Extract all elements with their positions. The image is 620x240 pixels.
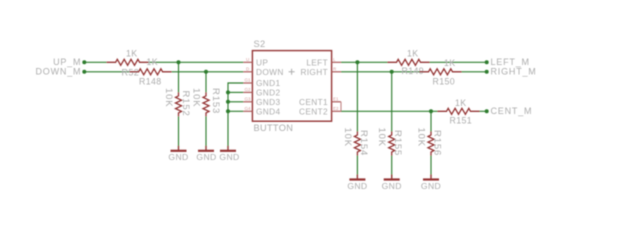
- resistor R156: [428, 132, 434, 156]
- svg-text:10K: 10K: [190, 88, 201, 107]
- svg-text:LEFT: LEFT: [306, 57, 328, 67]
- svg-text:1K: 1K: [147, 57, 158, 67]
- ground under R154: [349, 175, 365, 180]
- svg-text:1K: 1K: [126, 49, 137, 59]
- svg-text:U: U: [246, 57, 249, 62]
- svg-text:E2: E2: [333, 106, 339, 111]
- resistor R154: [354, 132, 360, 156]
- svg-text:R153: R153: [210, 88, 221, 114]
- svg-text:GND: GND: [168, 152, 188, 162]
- svg-text:E1: E1: [333, 97, 339, 102]
- wire R149 to LEFT_M: [430, 61, 487, 63]
- wire CENT1 stub down to CENT row: [340, 102, 342, 112]
- wire R153 to GND: [205, 116, 207, 149]
- svg-text:R155: R155: [392, 130, 403, 156]
- resistor R152: [176, 92, 182, 116]
- svg-text:10K: 10K: [376, 128, 387, 147]
- svg-text:BUTTON: BUTTON: [254, 123, 294, 133]
- svg-text:R151: R151: [450, 116, 472, 126]
- svg-text:G2: G2: [245, 87, 252, 92]
- svg-text:GND: GND: [196, 152, 216, 162]
- junction dots on ground bus: [226, 90, 230, 94]
- svg-text:DOWN_M: DOWN_M: [36, 67, 82, 77]
- junction dot UP row / R152: [177, 60, 181, 64]
- resistor R150: [420, 69, 462, 75]
- svg-text:GND4: GND4: [256, 106, 280, 116]
- junction dot CENT row / R156: [429, 109, 433, 113]
- wire R154 to GND: [356, 156, 358, 179]
- wire R155 to GND: [391, 156, 393, 179]
- wire LEFT pin to R149: [341, 61, 388, 63]
- junction dot DOWN_M: [82, 70, 86, 74]
- resistor R151: [438, 108, 480, 114]
- svg-text:L: L: [333, 57, 336, 62]
- junction dot UP_M: [82, 60, 86, 64]
- IC ground bus: wires from GND pins to vertical bus: [228, 83, 243, 150]
- junction dot LEFT_M: [485, 60, 489, 64]
- resistor R149: [388, 59, 430, 65]
- junction dot RIGHT row / R155: [390, 70, 394, 74]
- svg-text:1K: 1K: [455, 98, 466, 108]
- svg-text:CENT1: CENT1: [299, 97, 328, 107]
- resistor R153: [203, 92, 209, 116]
- svg-text:R152: R152: [180, 91, 191, 117]
- resistor R52: [107, 59, 149, 65]
- svg-text:UP: UP: [256, 57, 268, 67]
- svg-text:1K: 1K: [407, 49, 418, 59]
- svg-text:CENT2: CENT2: [299, 106, 328, 116]
- IC pin stubs left: [243, 61, 252, 63]
- svg-text:R148: R148: [139, 77, 161, 87]
- wire DOWN_M to R148: [84, 71, 129, 73]
- ground under R153: [198, 146, 214, 151]
- svg-text:10K: 10K: [163, 88, 174, 107]
- wire CENT row to R151: [341, 110, 438, 112]
- ground under R152: [171, 146, 187, 151]
- part origin cross: [289, 69, 295, 75]
- svg-text:R: R: [333, 67, 337, 72]
- wire DOWN junction down to R153: [205, 72, 207, 93]
- svg-text:10K: 10K: [342, 128, 353, 147]
- svg-text:UP_M: UP_M: [53, 57, 81, 67]
- junction dot LEFT row / R154: [355, 60, 359, 64]
- svg-text:R150: R150: [433, 77, 455, 87]
- wire RIGHT pin to R150: [341, 71, 420, 73]
- svg-text:GND: GND: [347, 181, 367, 191]
- wire R152 to GND: [178, 116, 180, 149]
- resistor R148: [130, 69, 172, 75]
- svg-text:GND: GND: [421, 181, 441, 191]
- wire R148 to IC DOWN pin: [172, 71, 244, 73]
- wire R52 to IC UP pin: [149, 61, 244, 63]
- svg-text:RIGHT: RIGHT: [300, 67, 328, 77]
- svg-text:G4: G4: [245, 106, 252, 111]
- svg-text:D: D: [246, 67, 250, 72]
- ground under IC bus: [220, 146, 236, 151]
- svg-text:1K: 1K: [444, 58, 455, 68]
- wire R151 to CENT_M: [480, 110, 487, 112]
- junction dot CENT_M: [485, 109, 489, 113]
- ground under R155: [384, 175, 400, 180]
- svg-text:GND: GND: [219, 152, 239, 162]
- wire RIGHT junction down to R155: [391, 72, 393, 132]
- svg-text:10K: 10K: [415, 128, 426, 147]
- svg-text:G1: G1: [245, 78, 252, 83]
- svg-text:G3: G3: [245, 97, 252, 102]
- svg-text:DOWN: DOWN: [256, 67, 284, 77]
- svg-text:GND3: GND3: [256, 97, 280, 107]
- junction dot DOWN row / R153: [204, 70, 208, 74]
- svg-text:CENT_M: CENT_M: [491, 106, 533, 116]
- resistor R155: [389, 132, 395, 156]
- IC pin stubs right: [332, 61, 341, 63]
- wire R156 to GND: [430, 156, 432, 179]
- wire R150 to RIGHT_M: [462, 71, 487, 73]
- wire LEFT junction down to R154: [356, 62, 358, 131]
- svg-text:R154: R154: [358, 130, 369, 156]
- svg-text:S2: S2: [254, 39, 266, 49]
- svg-text:LEFT_M: LEFT_M: [491, 57, 530, 67]
- ground under R156: [423, 175, 439, 180]
- wire UP_M to R52: [84, 61, 106, 63]
- svg-text:GND: GND: [382, 181, 402, 191]
- svg-text:RIGHT_M: RIGHT_M: [491, 67, 537, 77]
- junction dot RIGHT_M: [485, 70, 489, 74]
- wire CENT junction down to R156: [430, 111, 432, 131]
- wire UP junction down to R152: [178, 62, 180, 92]
- svg-text:R156: R156: [432, 130, 443, 156]
